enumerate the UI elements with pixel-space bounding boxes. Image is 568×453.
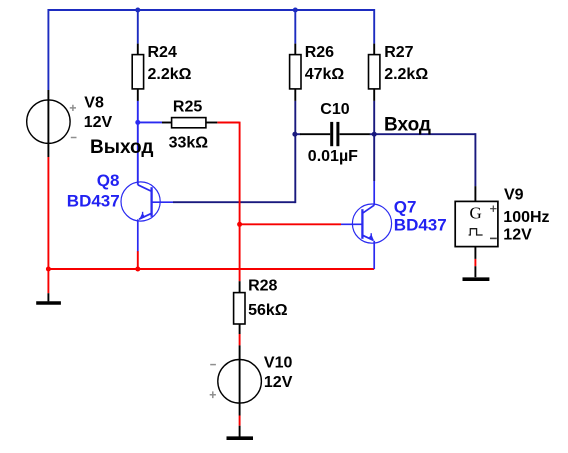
svg-text:Вход: Вход bbox=[384, 115, 431, 136]
wire C10 node to R26 bottom bbox=[294, 101, 296, 134]
wire bus to left ground bbox=[47, 269, 49, 293]
label V9 plus sign bbox=[490, 206, 496, 212]
wire V8 bottom red bbox=[47, 157, 49, 269]
wire V9 corner down to V9 plus pin bbox=[474, 133, 476, 186]
source V10 bbox=[218, 345, 262, 415]
resistor R24 bbox=[132, 44, 143, 101]
label V8 plus sign bbox=[70, 105, 76, 111]
resistor R28 bbox=[234, 281, 245, 334]
svg-text:R25: R25 bbox=[173, 98, 202, 115]
source V9 square-wave generator bbox=[455, 186, 498, 259]
wire Vhod node to V9 corner bbox=[374, 133, 475, 135]
svg-text:R28: R28 bbox=[248, 278, 277, 295]
junction bus-Q8 emitter bbox=[135, 267, 140, 272]
ground left bbox=[36, 293, 61, 303]
wire VCC rail top bbox=[48, 9, 374, 11]
transistor Q7 bbox=[341, 181, 392, 269]
wire emitter bus bbox=[48, 268, 374, 270]
wire stub C10 left bbox=[295, 133, 301, 135]
resistor R27 bbox=[369, 44, 380, 101]
wire R25 right to red column bbox=[217, 122, 239, 124]
svg-text:12V: 12V bbox=[84, 114, 113, 131]
junction Vhod node bbox=[372, 132, 377, 137]
svg-text:R24: R24 bbox=[148, 44, 177, 61]
svg-text:V8: V8 bbox=[84, 95, 104, 112]
wire stub C10 right bbox=[370, 133, 375, 135]
junction red base node bbox=[237, 222, 242, 227]
svg-text:56kΩ: 56kΩ bbox=[248, 302, 288, 319]
junction VCC-R26 bbox=[293, 8, 298, 13]
capacitor C10 bbox=[300, 122, 370, 146]
transistor Q8 bbox=[121, 182, 173, 251]
svg-text:0.01µF: 0.01µF bbox=[308, 148, 358, 165]
ground under V9 bbox=[463, 266, 490, 279]
svg-text:G: G bbox=[470, 203, 482, 222]
wire V9 to ground red bbox=[474, 259, 476, 266]
wire VCC drop to R27 bbox=[373, 9, 375, 44]
wire VCC drop to V8 bbox=[47, 9, 49, 90]
wire R28 to V10 red bbox=[239, 334, 241, 345]
resistor R25 bbox=[162, 118, 217, 128]
svg-text:2.2kΩ: 2.2kΩ bbox=[384, 66, 428, 83]
resistor R26 bbox=[290, 44, 301, 101]
label V9 square wave glyph bbox=[469, 229, 483, 235]
svg-text:V10: V10 bbox=[264, 355, 293, 372]
label V10 plus sign bbox=[210, 391, 216, 398]
wire Q8 base to node B1 bbox=[173, 201, 295, 203]
junction VCC-R24 bbox=[135, 8, 140, 13]
junction node Vyhod bbox=[135, 120, 140, 125]
wire Vhod node down to Q7 collector bbox=[373, 134, 375, 181]
label V10 minus sign bbox=[210, 364, 216, 366]
svg-text:Выход: Выход bbox=[90, 137, 153, 158]
svg-text:100Hz: 100Hz bbox=[503, 209, 549, 226]
wire VCC drop to R26 bbox=[294, 10, 296, 44]
source V8 bbox=[27, 90, 70, 157]
label V8 minus sign bbox=[71, 137, 77, 139]
wire Vhod node up to R27 bottom bbox=[373, 101, 375, 134]
wire red node to Q7 base bbox=[240, 223, 341, 225]
wire node Vyhod: R24 bottom to node bbox=[137, 101, 139, 123]
wire node Vyhod to R25 left bbox=[138, 121, 162, 123]
svg-text:33kΩ: 33kΩ bbox=[169, 134, 209, 151]
svg-text:12V: 12V bbox=[503, 226, 532, 243]
svg-text:R27: R27 bbox=[384, 44, 413, 61]
ground under V10 bbox=[227, 426, 254, 439]
svg-text:Q8: Q8 bbox=[97, 171, 120, 190]
junction C10 left node bbox=[292, 132, 297, 137]
wire red column down to R28 bbox=[239, 122, 241, 282]
wire V10 to ground red bbox=[239, 416, 241, 426]
wire VCC drop to R24 bbox=[137, 10, 139, 44]
svg-text:Q7: Q7 bbox=[394, 198, 417, 217]
svg-text:V9: V9 bbox=[504, 187, 524, 204]
svg-text:R26: R26 bbox=[305, 44, 334, 61]
svg-text:12V: 12V bbox=[264, 374, 293, 391]
svg-text:2.2kΩ: 2.2kΩ bbox=[148, 66, 192, 83]
wire node B1 vertical up to C10 node bbox=[294, 134, 296, 203]
svg-text:47kΩ: 47kΩ bbox=[305, 66, 345, 83]
wire node Vyhod down to Q8 collector bbox=[137, 122, 139, 184]
svg-text:BD437: BD437 bbox=[394, 216, 447, 235]
svg-text:BD437: BD437 bbox=[67, 192, 120, 211]
junction bus-V8 bbox=[46, 267, 51, 272]
label V9 minus sign bbox=[490, 237, 497, 239]
svg-text:C10: C10 bbox=[320, 101, 349, 118]
wire Q8 emitter red bbox=[137, 251, 139, 269]
